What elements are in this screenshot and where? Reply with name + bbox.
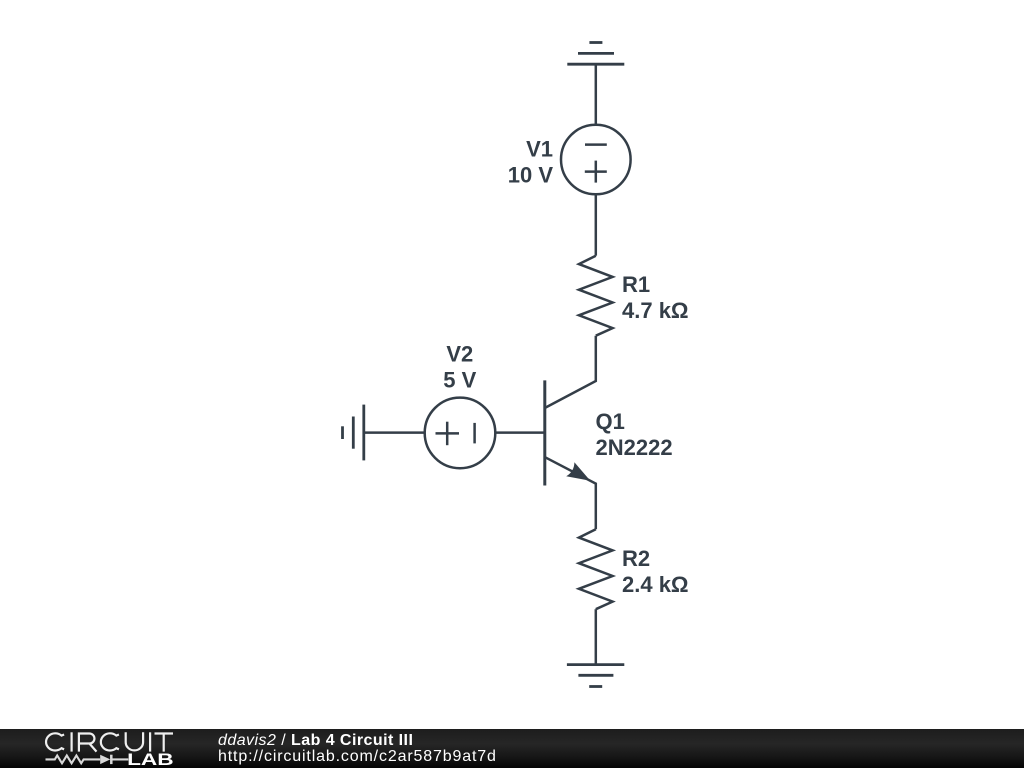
svg-text:Q1: Q1 [596,409,625,434]
svg-text:R2: R2 [622,546,650,571]
svg-text:LAB: LAB [127,750,174,768]
svg-text:V2: V2 [446,342,473,367]
svg-text:V1: V1 [526,137,553,162]
svg-text:5 V: 5 V [443,367,476,392]
svg-text:2.4 kΩ: 2.4 kΩ [622,572,689,597]
svg-text:2N2222: 2N2222 [596,435,673,460]
svg-text:4.7 kΩ: 4.7 kΩ [622,298,689,323]
svg-text:10 V: 10 V [508,163,554,188]
svg-text:R1: R1 [622,272,650,297]
